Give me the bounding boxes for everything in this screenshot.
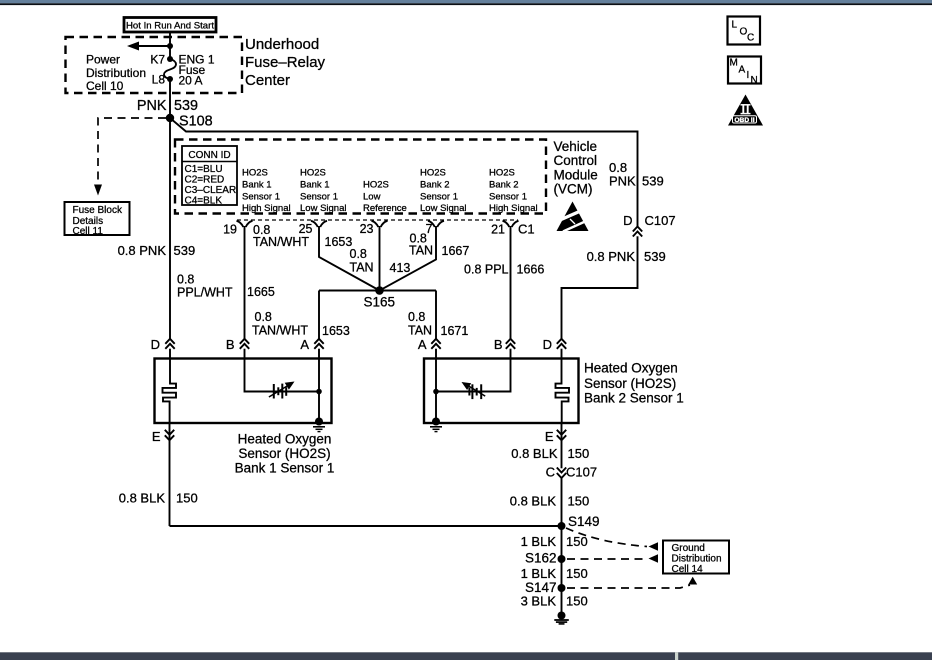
VCM pin label column 5 — [489, 168, 538, 215]
svg-text:Power: Power — [86, 53, 120, 67]
svg-text:S162: S162 — [525, 550, 557, 565]
wire pin25 TAN/WHT to S165 — [319, 226, 380, 291]
svg-text:Bank 1 Sensor 1: Bank 1 Sensor 1 — [235, 461, 335, 476]
label PNK 539 — [137, 98, 198, 114]
svg-text:Reference: Reference — [363, 203, 407, 214]
svg-text:A: A — [418, 337, 427, 352]
svg-text:C3–CLEAR: C3–CLEAR — [185, 185, 237, 196]
svg-text:Low: Low — [363, 192, 381, 203]
dashed reference to fuse block — [94, 118, 166, 196]
splice S147 — [525, 580, 566, 595]
svg-text:B: B — [226, 337, 235, 352]
case ground left — [313, 418, 325, 432]
svg-text:Distribution: Distribution — [86, 66, 146, 80]
svg-text:Vehicle: Vehicle — [554, 139, 598, 154]
fuse block details box — [65, 202, 130, 237]
svg-text:539: 539 — [644, 249, 666, 264]
svg-text:A: A — [739, 65, 746, 76]
heater control wire right — [436, 359, 511, 392]
terminal E left — [152, 429, 174, 444]
svg-text:20 A: 20 A — [179, 74, 203, 88]
svg-text:L8: L8 — [152, 73, 166, 87]
case ground right — [430, 418, 442, 432]
svg-text:Cell 11: Cell 11 — [73, 226, 104, 237]
VCM pin label column 1 — [242, 168, 291, 215]
label 0.8 TAN 1671 — [408, 310, 468, 338]
svg-text:TAN/WHT: TAN/WHT — [252, 324, 308, 338]
svg-text:PNK: PNK — [609, 174, 636, 189]
svg-text:0.8 PPL: 0.8 PPL — [464, 263, 509, 277]
terminal D right — [543, 337, 567, 352]
connector C107 terminal D — [623, 213, 675, 237]
svg-text:19: 19 — [223, 223, 237, 237]
svg-text:539: 539 — [642, 174, 664, 189]
svg-text:S108: S108 — [179, 114, 213, 130]
svg-text:Heated Oxygen: Heated Oxygen — [238, 432, 332, 447]
svg-text:S149: S149 — [568, 514, 600, 529]
label 0.8 PNK 539 upper right — [609, 160, 664, 189]
svg-text:1671: 1671 — [441, 324, 469, 338]
icon MAIN — [728, 57, 761, 87]
svg-text:Bank 2: Bank 2 — [489, 180, 519, 191]
svg-text:Sensor 1: Sensor 1 — [489, 192, 527, 203]
wire PNK 539 from fuse to S108 and down to sensor D — [169, 79, 171, 359]
svg-text:Sensor 1: Sensor 1 — [300, 192, 338, 203]
label 0.8 PPL 1666 — [464, 263, 544, 277]
svg-text:B: B — [494, 337, 503, 352]
HO2S bank2 sensor box — [424, 359, 579, 424]
terminal E right — [545, 429, 566, 444]
svg-text:1667: 1667 — [442, 244, 470, 258]
label 0.8 PNK 539 left — [118, 243, 196, 258]
svg-text:0.8 BLK: 0.8 BLK — [119, 491, 166, 506]
svg-text:N: N — [751, 75, 758, 86]
connector C107 terminal C — [546, 465, 597, 480]
HO2S bank1 sensor box — [155, 359, 332, 424]
svg-text:Ground: Ground — [672, 543, 705, 554]
svg-text:Module: Module — [554, 168, 598, 183]
terminal A right — [418, 337, 441, 352]
svg-text:3 BLK: 3 BLK — [521, 594, 557, 609]
wire BLK 150 left — [169, 423, 171, 526]
icon OBD II triangle — [728, 95, 763, 126]
ground G at bottom — [554, 612, 569, 624]
svg-text:D: D — [151, 337, 160, 352]
svg-text:HO2S: HO2S — [300, 168, 326, 179]
svg-text:TAN: TAN — [350, 261, 374, 275]
connector exit cup pin 7 — [428, 221, 444, 227]
connector exit cup pin 21 — [503, 221, 519, 227]
svg-text:Low Signal: Low Signal — [420, 203, 466, 214]
svg-text:E: E — [152, 429, 161, 444]
heater element right — [556, 359, 570, 424]
svg-text:0.8 PNK: 0.8 PNK — [118, 243, 167, 258]
svg-text:1 BLK: 1 BLK — [521, 566, 557, 581]
heater control wire left — [245, 359, 320, 392]
svg-text:150: 150 — [568, 494, 590, 509]
svg-text:Bank 1: Bank 1 — [300, 180, 330, 191]
svg-text:A: A — [300, 337, 309, 352]
junction left — [316, 389, 322, 395]
svg-text:OBD II: OBD II — [734, 117, 754, 124]
svg-text:Distribution: Distribution — [672, 554, 722, 565]
label Power Distribution Cell 10 — [86, 53, 146, 94]
svg-text:539: 539 — [174, 98, 198, 114]
svg-text:Underhood: Underhood — [245, 36, 319, 53]
label Vehicle Control Module (VCM) — [554, 139, 598, 197]
svg-text:150: 150 — [566, 534, 588, 549]
svg-text:M: M — [730, 58, 738, 69]
svg-text:539: 539 — [174, 243, 196, 258]
wire pin21 PPL to sensor B right — [510, 226, 512, 359]
svg-text:Sensor (HO2S): Sensor (HO2S) — [238, 446, 330, 461]
svg-text:150: 150 — [568, 446, 590, 461]
splice S108 — [166, 114, 213, 130]
wire from S108 to VCM right side — [170, 118, 638, 359]
svg-text:Cell 14: Cell 14 — [672, 564, 704, 575]
label Heated Oxygen Sensor Bank 2 — [584, 361, 684, 406]
ground distribution box — [663, 541, 729, 576]
sensor element wire right — [435, 359, 437, 422]
svg-text:L: L — [732, 20, 738, 31]
svg-text:150: 150 — [176, 491, 198, 506]
svg-text:TAN: TAN — [409, 244, 433, 258]
svg-text:1665: 1665 — [247, 285, 275, 299]
label 3 BLK 150 — [521, 594, 588, 609]
label Underhood Fuse-Relay Center — [245, 36, 326, 89]
bottom status bar — [0, 652, 932, 660]
terminal B left — [226, 337, 249, 352]
svg-text:(VCM): (VCM) — [554, 182, 593, 197]
terminal D left — [151, 337, 175, 352]
fuse F1 ENG 1 20A — [164, 56, 176, 82]
svg-text:Heated Oxygen: Heated Oxygen — [584, 361, 678, 376]
terminal B right — [494, 337, 515, 352]
svg-text:C107: C107 — [566, 465, 597, 480]
svg-text:413: 413 — [390, 261, 411, 275]
svg-text:D: D — [543, 337, 552, 352]
dashed reference from S149 — [566, 528, 658, 551]
svg-text:S165: S165 — [364, 295, 396, 310]
svg-text:Bank 2: Bank 2 — [420, 180, 450, 191]
svg-text:E: E — [545, 429, 554, 444]
svg-text:C: C — [747, 33, 754, 44]
svg-text:0.8: 0.8 — [408, 310, 425, 324]
svg-text:0.8: 0.8 — [255, 310, 272, 324]
wire from Hot box to fuse node — [169, 32, 171, 59]
svg-text:Control: Control — [554, 153, 598, 168]
junction right — [433, 389, 439, 395]
svg-text:HO2S: HO2S — [242, 168, 268, 179]
splice S165 bus — [319, 286, 436, 358]
connector exit cup pin 25 — [311, 221, 327, 227]
label 0.8 BLK 150 right lower — [510, 494, 589, 509]
label 0.8 TAN/WHT 1653 lower — [252, 310, 350, 338]
svg-text:High Signal: High Signal — [489, 203, 538, 214]
svg-text:High Signal: High Signal — [242, 203, 291, 214]
svg-text:Hot In Run And Start: Hot In Run And Start — [126, 21, 214, 32]
VCM pin label column 4 — [420, 168, 466, 215]
svg-text:C1=BLU: C1=BLU — [185, 164, 223, 175]
svg-text:150: 150 — [566, 594, 588, 609]
svg-text:0.8 BLK: 0.8 BLK — [510, 494, 557, 509]
svg-text:Sensor 1: Sensor 1 — [420, 192, 458, 203]
svg-text:HO2S: HO2S — [363, 180, 389, 191]
dashed reference from S147 — [567, 577, 697, 588]
svg-text:0.8 BLK: 0.8 BLK — [511, 446, 558, 461]
underhood fuse-relay center dashed box — [66, 37, 243, 93]
dashed reference from S162 — [567, 554, 658, 562]
label 0.8 BLK 150 right upper — [511, 446, 589, 461]
svg-text:Fuse–Relay: Fuse–Relay — [245, 54, 326, 71]
label 0.8 TAN/WHT 1653 upper — [253, 223, 352, 249]
svg-text:Low Signal: Low Signal — [300, 203, 346, 214]
label Hot In Run And Start — [124, 18, 216, 33]
label 0.8 TAN 413 — [350, 247, 411, 275]
label 0.8 TAN 1667 — [409, 232, 469, 259]
svg-text:HO2S: HO2S — [420, 168, 446, 179]
svg-text:1666: 1666 — [517, 263, 545, 277]
svg-text:0.8: 0.8 — [350, 247, 367, 261]
ESD warning triangle — [557, 202, 590, 232]
vehicle control module dashed box — [175, 140, 546, 214]
top header bar — [0, 0, 932, 5]
svg-text:C2=RED: C2=RED — [185, 175, 225, 186]
label 1 BLK 150 first — [521, 534, 588, 549]
svg-text:I: I — [747, 70, 750, 81]
svg-text:0.8 PNK: 0.8 PNK — [587, 249, 636, 264]
terminal A left — [300, 337, 323, 352]
svg-text:21: 21 — [491, 223, 505, 237]
svg-text:C: C — [546, 465, 555, 480]
svg-text:K7: K7 — [150, 53, 165, 67]
wire pin23 TAN 413 to S165 — [379, 226, 381, 291]
svg-text:Bank 2 Sensor 1: Bank 2 Sensor 1 — [584, 391, 684, 406]
connector exit cup pin 23 — [372, 221, 388, 227]
splice S162 — [525, 550, 566, 565]
svg-text:TAN: TAN — [408, 324, 432, 338]
svg-text:Sensor (HO2S): Sensor (HO2S) — [584, 376, 676, 391]
svg-text:PPL/WHT: PPL/WHT — [177, 286, 233, 300]
variable resistor right — [462, 382, 486, 399]
svg-text:Center: Center — [245, 72, 290, 89]
svg-text:150: 150 — [566, 566, 588, 581]
svg-text:0.8: 0.8 — [177, 273, 194, 287]
arrow to power distribution — [127, 42, 173, 51]
svg-text:CONN ID: CONN ID — [188, 150, 230, 161]
label 1 BLK 150 second — [521, 566, 588, 581]
icon LOC — [728, 17, 761, 45]
variable resistor left — [269, 382, 295, 399]
svg-text:C1: C1 — [518, 222, 535, 237]
heater element left — [163, 359, 177, 424]
svg-text:C4=BLK: C4=BLK — [185, 196, 223, 207]
svg-text:HO2S: HO2S — [489, 168, 515, 179]
label 0.8 PPL/WHT 1665 — [177, 273, 275, 300]
wire pin19 PPL/WHT to sensor B — [244, 226, 246, 359]
splice S149 — [558, 514, 600, 530]
svg-text:C107: C107 — [645, 213, 676, 228]
sensor element wire left — [318, 359, 320, 422]
VCM connector edge dashed line — [237, 219, 518, 221]
svg-text:TAN/WHT: TAN/WHT — [253, 235, 309, 249]
svg-text:D: D — [623, 213, 632, 228]
svg-text:23: 23 — [360, 222, 374, 236]
svg-text:1653: 1653 — [322, 324, 350, 338]
svg-text:Fuse Block: Fuse Block — [73, 205, 123, 216]
VCM pin label column 3 — [363, 180, 407, 215]
ground bus wire — [170, 525, 562, 527]
svg-text:Bank 1: Bank 1 — [242, 180, 272, 191]
svg-text:Cell 10: Cell 10 — [86, 79, 124, 93]
VCM pin label column 2 — [300, 168, 346, 215]
label Heated Oxygen Sensor Bank 1 — [235, 432, 335, 476]
label ENG 1 Fuse 20 A — [179, 53, 215, 88]
wire pin7 TAN 1667 to S165 — [380, 226, 437, 291]
wire BLK 150 right upper — [561, 423, 563, 616]
label 0.8 PNK 539 mid right — [587, 249, 666, 264]
svg-text:1 BLK: 1 BLK — [521, 534, 557, 549]
label 0.8 BLK 150 left — [119, 491, 198, 506]
svg-text:25: 25 — [299, 222, 313, 236]
svg-text:PNK: PNK — [137, 98, 167, 114]
svg-text:1653: 1653 — [325, 235, 353, 249]
connector exit cup pin 19 — [237, 221, 253, 227]
CONN ID table — [182, 146, 237, 207]
svg-text:Sensor 1: Sensor 1 — [242, 192, 280, 203]
